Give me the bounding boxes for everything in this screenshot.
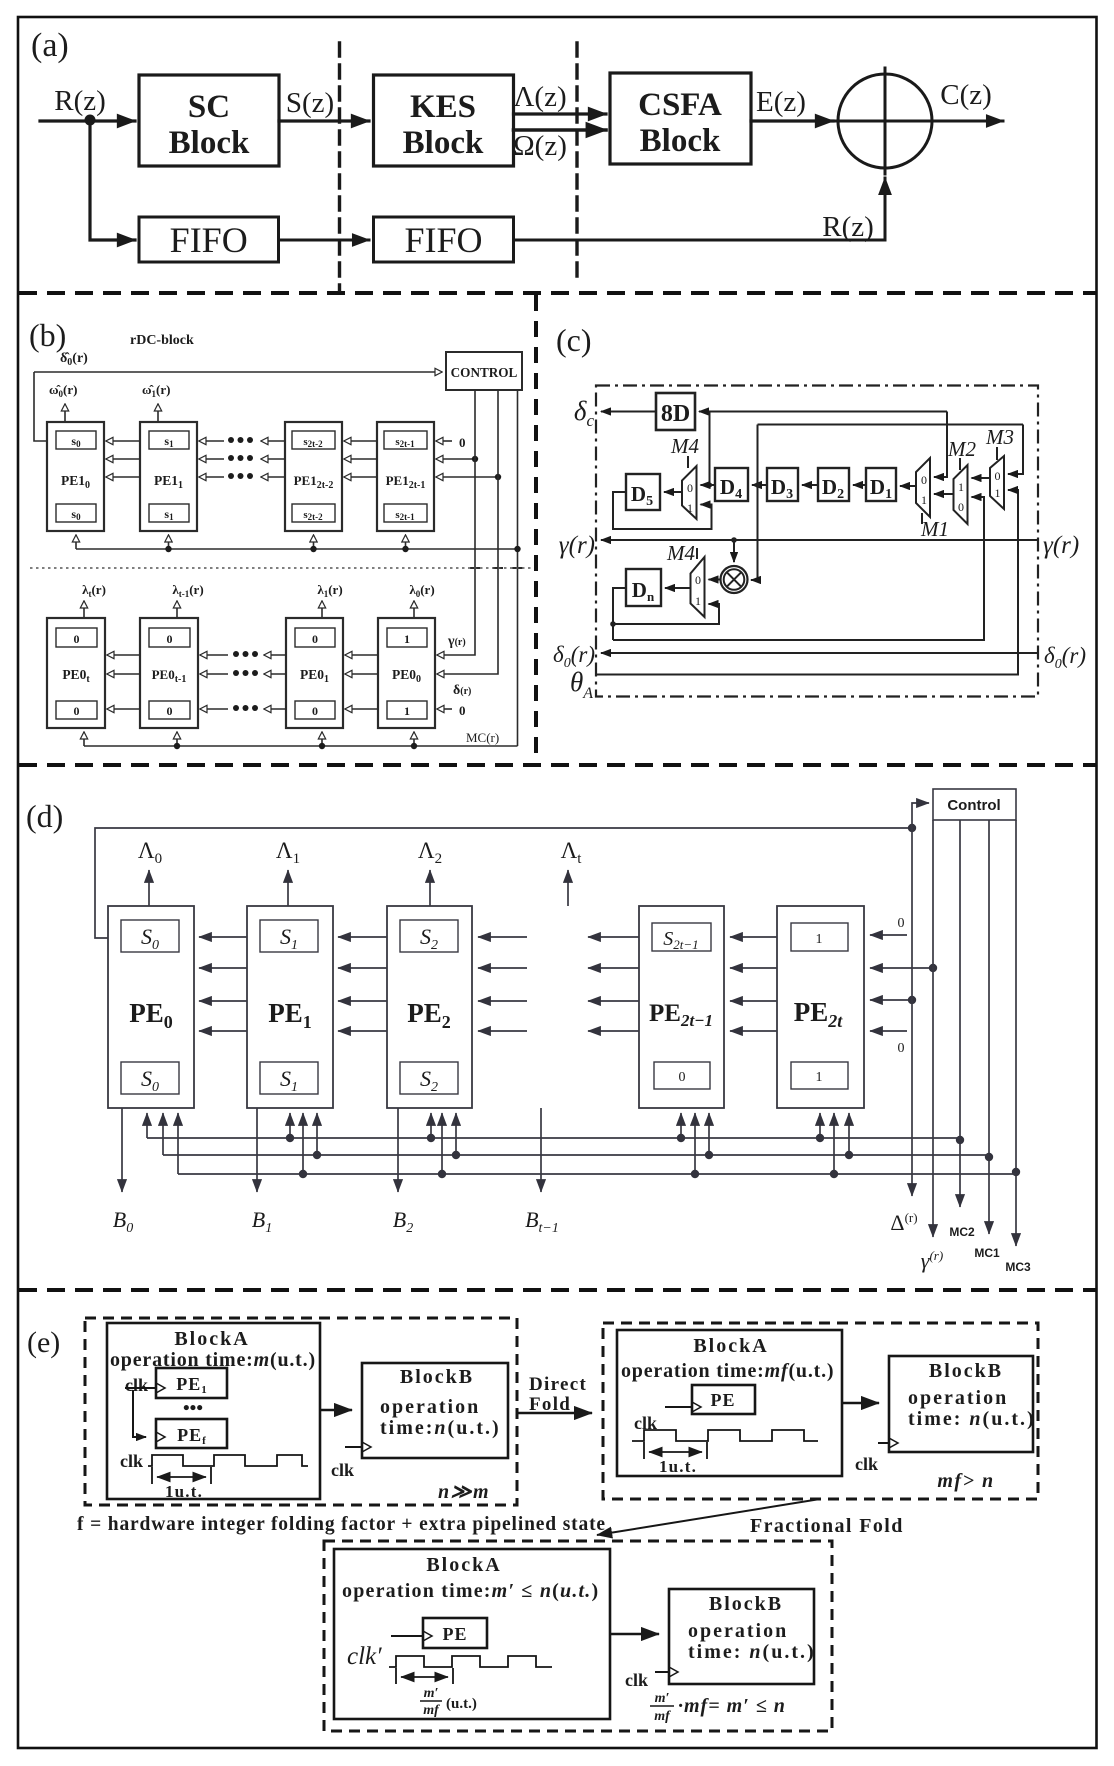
wire KES to CSFA lower: [514, 128, 607, 132]
CONTROL box: [446, 352, 522, 390]
8D box: [656, 393, 695, 430]
wire theta_A to M3 one input: [596, 490, 1018, 675]
svg-text:operation time:m′ ≤ n(u.t.): operation time:m′ ≤ n(u.t.): [342, 1580, 599, 1602]
BlockA2 box: [617, 1330, 842, 1476]
svg-text:time: n(u.t.): time: n(u.t.): [908, 1408, 1036, 1430]
wire D1 to D2: [853, 484, 866, 486]
svg-text:s2t-2: s2t-2: [303, 509, 323, 522]
bus line 2: [163, 1154, 989, 1156]
wire D2 to D3: [802, 484, 818, 486]
control vertical line 1: [437, 390, 475, 655]
svg-text:1u.t.: 1u.t.: [659, 1457, 697, 1476]
svg-text:1: 1: [921, 493, 927, 507]
PE0_1 box: [286, 618, 343, 728]
wire clk' to PE3: [391, 1635, 423, 1637]
dots ellipsis lower: [233, 651, 258, 711]
wire M4 lower output to Dn: [665, 587, 691, 589]
PE0_0 box: [378, 618, 435, 728]
wire BlockA2 to BlockB2: [842, 1402, 879, 1404]
svg-text:B2: B2: [393, 1207, 413, 1236]
svg-text:PE0: PE0: [129, 998, 173, 1032]
svg-text:0: 0: [312, 704, 318, 718]
wires PE2 to PE1 rows: [338, 936, 387, 938]
wire M3 output to M2 one input: [972, 477, 991, 479]
svg-text:clk: clk: [125, 1375, 148, 1395]
svg-text:Ω(z): Ω(z): [513, 130, 567, 162]
svg-text:Block: Block: [640, 123, 721, 159]
svg-text:Control: Control: [947, 797, 1000, 814]
svg-text:1u.t.: 1u.t.: [165, 1482, 203, 1501]
svg-text:0: 0: [687, 481, 693, 495]
PE1_1 box: [140, 422, 197, 531]
wire B0 output: [121, 1108, 123, 1192]
svg-text:MC3: MC3: [1005, 1260, 1031, 1274]
measure ticks 2: [644, 1442, 707, 1459]
svg-text:time: n(u.t.): time: n(u.t.): [688, 1641, 816, 1663]
wire D4 to M4 zero input: [701, 484, 716, 486]
svg-text:γ(r): γ(r): [447, 634, 466, 649]
adder cross horizontal / output wire: [831, 120, 1003, 123]
node junction between D3 and D4: [755, 482, 760, 487]
svg-text:Block: Block: [403, 125, 484, 161]
node junction feedback: [908, 824, 916, 832]
wire FIFO1 to FIFO2: [279, 239, 370, 242]
PE2t-1 bus risers: [680, 1113, 682, 1138]
BlockA1 box: [107, 1323, 320, 1499]
PE1_0 bottom arrow: [75, 535, 77, 549]
svg-text:E(z): E(z): [756, 86, 806, 118]
dashed separator line bc/d: [19, 763, 1096, 767]
upper bus: [76, 548, 518, 550]
svg-text:operation: operation: [688, 1620, 788, 1642]
wire Dn loop down branch: [612, 624, 614, 640]
PE box e3: [423, 1618, 487, 1648]
svg-text:0: 0: [167, 704, 173, 718]
PE_0 box: [108, 906, 194, 1108]
node junction on Dn loop: [610, 621, 616, 627]
svg-text:PE11: PE11: [154, 473, 183, 491]
measure arrow 1u.t. 2: [649, 1451, 702, 1453]
control vertical line 2: [437, 390, 498, 674]
arrow lambda_0 out of PE0_0: [413, 601, 415, 618]
wire B1 output: [256, 1108, 258, 1192]
wires PE2t to PE2t-1 rows: [730, 936, 777, 938]
svg-text:(a): (a): [31, 27, 69, 64]
FIFO 2: [374, 217, 514, 262]
svg-text:R(z): R(z): [822, 211, 874, 243]
wire zero input row4 PE2t: [870, 1030, 907, 1032]
svg-text:S2: S2: [420, 1066, 438, 1095]
svg-text:BlockB: BlockB: [929, 1360, 1003, 1382]
wire feedback row3 PE2t: [870, 999, 912, 1001]
svg-text:clk: clk: [625, 1670, 648, 1690]
clk input BlockB2: [878, 1442, 889, 1444]
svg-text:CSFA: CSFA: [638, 87, 722, 123]
adder cross vertical: [884, 68, 887, 174]
svg-text:0: 0: [898, 1041, 905, 1056]
BlockB2 box: [889, 1356, 1033, 1452]
svg-text:D1: D1: [870, 475, 892, 502]
clock waveform 1: [148, 1455, 308, 1466]
svg-text:0: 0: [679, 1070, 686, 1085]
svg-text:Λ(z): Λ(z): [513, 81, 566, 113]
svg-text:•••: •••: [183, 1398, 203, 1419]
svg-text:time:n(u.t.): time:n(u.t.): [380, 1417, 501, 1439]
arrow Lambda_1 out: [287, 870, 289, 906]
wire feedback top run to PE0: [95, 828, 912, 938]
svg-text:mf> n: mf> n: [937, 1470, 994, 1492]
svg-text:0: 0: [695, 573, 701, 587]
svg-text:(e): (e): [27, 1326, 60, 1359]
PE_1 sub box: [156, 1368, 227, 1398]
svg-text:S2t−1: S2t−1: [663, 928, 698, 952]
svg-text:M4: M4: [670, 434, 699, 458]
svg-text:0: 0: [74, 704, 80, 718]
PE1_1 bottom arrow: [168, 535, 170, 549]
wire B2 output: [397, 1108, 399, 1192]
svg-text:PE12t-2: PE12t-2: [294, 473, 334, 491]
arrow lambda_t out of PE0_t: [83, 601, 85, 618]
dashed vertical separator b/c: [534, 295, 538, 764]
svg-text:PEf: PEf: [177, 1425, 207, 1447]
svg-text:BlockA: BlockA: [693, 1335, 768, 1357]
arrow lambda_1 out of PE0_1: [321, 601, 323, 618]
svg-text:M2: M2: [947, 437, 976, 461]
svg-text:1: 1: [995, 486, 1001, 500]
wires PE1 to PE0 rows: [199, 936, 247, 938]
svg-text:FIFO: FIFO: [404, 220, 482, 260]
wire row 477 to control line: [436, 476, 498, 478]
svg-text:rDC-block: rDC-block: [130, 333, 194, 348]
wire feedback FIFO2 to adder: [514, 178, 886, 240]
measure arrow m'/mf: [401, 1676, 448, 1678]
wire clk to PE2e: [665, 1406, 692, 1408]
svg-text:BlockA: BlockA: [174, 1328, 249, 1350]
wire M2 output to M1 one input: [934, 493, 954, 495]
D4 box: [715, 468, 748, 501]
wires gap into PE2 rows: [478, 936, 527, 938]
svg-text:m′: m′: [424, 1686, 439, 1701]
wire feedback up into Control: [912, 803, 929, 828]
svg-text:PE: PE: [710, 1390, 735, 1410]
mux M4 lower: [691, 557, 705, 617]
svg-text:λ1(r): λ1(r): [317, 582, 342, 599]
svg-text:δc: δc: [574, 396, 595, 430]
svg-text:(d): (d): [26, 798, 63, 834]
svg-text:PE01: PE01: [300, 667, 329, 685]
dashed pipeline divider 2: [575, 43, 578, 285]
mux M1 select stub: [921, 513, 923, 524]
svg-text:D4: D4: [720, 475, 742, 502]
svg-text:0: 0: [459, 435, 466, 450]
svg-text:s1: s1: [164, 507, 174, 522]
svg-text:clk: clk: [855, 1454, 878, 1474]
wire row 459 to control line: [436, 458, 475, 460]
upper bus connector line: [517, 549, 519, 746]
PE0_t-1 bottom arrow: [176, 732, 178, 746]
svg-text:PE0t: PE0t: [62, 667, 90, 685]
svg-text:Dn: Dn: [632, 578, 655, 604]
wire SC to KES: [279, 119, 369, 122]
mux M4 lower select stub: [696, 548, 698, 559]
clock triangle PEf: [156, 1432, 165, 1442]
PE0_t-1 box: [140, 618, 198, 728]
wire R(z) input: [40, 119, 135, 122]
wire M1 output to D1: [900, 485, 916, 487]
svg-text:0: 0: [312, 632, 318, 646]
adder circle: [838, 74, 932, 168]
arrow lambda_t-1 out of PE0_t-1: [176, 601, 178, 618]
wires PE0_t-1/dots rows: [200, 654, 228, 656]
svg-text:s1: s1: [164, 434, 174, 449]
tick marks at dotted separator: [470, 567, 480, 569]
wire delta feedback top run: [758, 424, 1024, 426]
svg-text:(c): (c): [556, 322, 592, 358]
svg-text:s2t-2: s2t-2: [303, 436, 323, 449]
bus line 1: [147, 1137, 960, 1139]
measure arrow 1u.t.: [157, 1476, 206, 1478]
wire gamma(r) across: [601, 539, 1038, 541]
svg-text:λt(r): λt(r): [82, 582, 106, 599]
D3 box: [767, 468, 798, 501]
SC Block: [139, 75, 279, 166]
wire D3 to D4: [752, 484, 767, 486]
svg-text:0: 0: [74, 632, 80, 646]
mux M1: [916, 458, 930, 517]
wires PE1_0/PE1_1 rows: [106, 440, 140, 442]
arrow omega_0 out of PE1_0: [64, 404, 66, 422]
svg-text:BlockB: BlockB: [709, 1593, 783, 1615]
svg-text:1: 1: [404, 704, 410, 718]
svg-text:Λ2: Λ2: [418, 838, 442, 867]
svg-text:C(z): C(z): [940, 79, 992, 111]
svg-text:(u.t.): (u.t.): [446, 1696, 477, 1712]
PE1_2t-1 bottom arrow: [405, 535, 407, 549]
wire zero input row1 PE2t: [870, 934, 907, 936]
svg-text:δ(r): δ(r): [453, 683, 471, 698]
svg-text:Λt: Λt: [561, 838, 583, 867]
wire CSFA to adder: [751, 119, 833, 122]
svg-text:Block: Block: [169, 125, 250, 161]
wire fractional fold arrow: [597, 1499, 820, 1535]
svg-text:γ(r): γ(r): [559, 532, 595, 559]
wire D5 feedback loop to M4 one input: [613, 492, 712, 529]
dotted half separator: [30, 567, 534, 569]
svg-text:clk: clk: [120, 1451, 143, 1471]
wire MC3 vertical: [1015, 820, 1017, 1246]
D2 box: [818, 468, 849, 501]
svg-text:λt-1(r): λt-1(r): [172, 582, 203, 599]
wires PE2t-1 to gap rows: [588, 936, 639, 938]
svg-text:Λ1: Λ1: [276, 838, 300, 867]
svg-text:δ̂0(r): δ̂0(r): [60, 351, 88, 368]
dashed separator line d/e: [19, 1288, 1096, 1292]
svg-text:1: 1: [816, 932, 823, 947]
wire Bt-1 output: [540, 1108, 542, 1192]
bus line 3: [178, 1173, 1016, 1175]
wire delta feedback riser: [757, 425, 759, 486]
wires PE0_t/PE0_t-1 rows: [107, 654, 140, 656]
svg-text:SC: SC: [188, 89, 230, 125]
svg-text:PE: PE: [442, 1624, 467, 1644]
svg-text:MC1: MC1: [974, 1246, 1000, 1260]
arrow Lambda_2 out: [429, 870, 431, 906]
svg-text:ω̂1(r): ω̂1(r): [142, 382, 170, 399]
BlockA3 box: [334, 1549, 610, 1719]
wire top feedback into CONTROL: [34, 371, 442, 373]
svg-text:KES: KES: [410, 89, 476, 125]
svg-text:M4: M4: [666, 541, 695, 565]
mux M2 select stub: [959, 458, 961, 470]
svg-text:PE10: PE10: [61, 473, 90, 491]
arrow omega_1 out of PE1_1: [157, 404, 159, 422]
svg-text:0: 0: [995, 469, 1001, 483]
BlockB3 box: [669, 1589, 814, 1684]
svg-text:PE12t-1: PE12t-1: [386, 473, 426, 491]
PE0_1 bottom arrow: [321, 732, 323, 746]
wires PE1_2t-2/PE1_2t-1 rows: [344, 440, 377, 442]
mux M4 upper select stub: [687, 456, 689, 468]
PE0 bus risers: [146, 1113, 148, 1138]
svg-text:Fractional Fold: Fractional Fold: [750, 1515, 904, 1537]
svg-text:f = hardware integer folding f: f = hardware integer folding factor + ex…: [77, 1514, 606, 1535]
PE2 bus risers: [430, 1113, 432, 1138]
mux M2: [954, 465, 968, 524]
wire feedback down to M1 zero input: [934, 412, 947, 478]
svg-text:D3: D3: [771, 475, 793, 502]
wire BlockA1 to BlockB1: [320, 1409, 352, 1411]
multiplier X: [727, 572, 742, 587]
svg-text:S0: S0: [141, 924, 159, 953]
svg-text:1: 1: [404, 632, 410, 646]
svg-text:D5: D5: [631, 482, 653, 509]
svg-text:BlockA: BlockA: [426, 1554, 501, 1576]
svg-text:CONTROL: CONTROL: [451, 365, 518, 380]
wire junction drop to M4 row: [709, 412, 711, 486]
wire delta feedback down to multiplier: [751, 485, 758, 580]
wire MC2 vertical: [959, 820, 961, 1207]
dashed pipeline divider 1: [338, 43, 341, 290]
PE1 bus risers: [289, 1113, 291, 1138]
svg-text:operation: operation: [380, 1396, 480, 1418]
wire R(z) down to FIFO: [90, 121, 135, 240]
svg-text:0: 0: [958, 500, 964, 514]
PE box e2: [692, 1385, 755, 1414]
svg-text:R(z): R(z): [54, 85, 106, 117]
wire control row2 PE2t: [870, 967, 933, 969]
svg-text:λ0(r): λ0(r): [409, 582, 434, 599]
wire Delta(r) vertical: [911, 828, 913, 1196]
svg-text:ω̂0(r): ω̂0(r): [49, 382, 77, 399]
wire MC1 vertical: [988, 820, 990, 1234]
svg-text:Δ(r): Δ(r): [890, 1210, 917, 1235]
PE_f sub box: [156, 1419, 227, 1448]
svg-text:s2t-1: s2t-1: [395, 509, 415, 522]
svg-text:S0: S0: [141, 1066, 159, 1095]
svg-text:mf: mf: [654, 1709, 671, 1724]
multiplier inner circle: [724, 569, 745, 590]
svg-text:B0: B0: [113, 1207, 133, 1236]
PE0_0 bottom arrow: [413, 732, 415, 746]
svg-text:PE00: PE00: [392, 667, 421, 685]
wire 8D output left: [601, 411, 656, 413]
svg-text:θA: θA: [570, 667, 593, 702]
D1 box: [866, 468, 896, 501]
measure ticks 1: [152, 1467, 211, 1484]
svg-text:1: 1: [958, 480, 964, 494]
dash-dot border box: [596, 386, 1038, 697]
wires dots/PE1_2t-2 rows: [261, 440, 285, 442]
PE1_0 box: [47, 422, 104, 531]
wire KES to CSFA upper: [514, 112, 607, 115]
svg-text:PE0t-1: PE0t-1: [152, 667, 187, 685]
PE_2t box: [777, 906, 864, 1108]
dashed separator line a/bc: [19, 291, 1096, 295]
wire zero input row 441: [436, 440, 452, 442]
svg-text:Λ0: Λ0: [138, 838, 162, 867]
arrow Lambda_0 out: [148, 870, 150, 906]
control vertical line 3: [517, 390, 519, 549]
clock waveform 3: [389, 1656, 552, 1667]
PE1_2t-1 box: [377, 422, 434, 531]
svg-text:clk: clk: [331, 1460, 354, 1480]
wire delta_0(r) across: [601, 652, 1038, 654]
clock waveform 2: [632, 1430, 818, 1441]
svg-text:s2t-1: s2t-1: [395, 436, 415, 449]
PE_2t-1 box: [639, 906, 724, 1108]
svg-text:0: 0: [167, 632, 173, 646]
node junction on R(z): [85, 115, 96, 126]
clock triangle PE1: [156, 1383, 165, 1393]
svg-text:BlockB: BlockB: [400, 1366, 474, 1388]
svg-text:δ0(r): δ0(r): [1044, 643, 1086, 672]
svg-text:(b): (b): [29, 317, 66, 353]
PE0_t box: [47, 618, 105, 728]
svg-text:mf: mf: [423, 1703, 440, 1718]
svg-text:PE1: PE1: [176, 1374, 208, 1396]
wire BlockA3 to BlockB3: [610, 1633, 659, 1635]
svg-text:γ(r): γ(r): [1043, 532, 1079, 559]
wire left loop down to PE1_0: [34, 372, 47, 441]
svg-text:γ(r): γ(r): [921, 1248, 943, 1273]
svg-text:operation time:mf(u.t.): operation time:mf(u.t.): [621, 1360, 834, 1382]
wire zero input row 709: [437, 708, 452, 710]
svg-text:operation: operation: [908, 1387, 1008, 1409]
svg-text:clk′: clk′: [347, 1643, 382, 1670]
PE0_t bottom arrow: [83, 732, 85, 746]
wire delta_c run to M2 zero input: [613, 497, 984, 640]
svg-text:Direct: Direct: [529, 1374, 587, 1395]
svg-text:s0: s0: [71, 434, 81, 449]
wire direct fold arrow: [517, 1412, 592, 1414]
mux M3: [990, 456, 1004, 509]
CSFA Block: [610, 73, 751, 164]
svg-text:·mf= m′ ≤ n: ·mf= m′ ≤ n: [678, 1695, 786, 1717]
dashed box A1: [85, 1318, 517, 1505]
svg-text:S1: S1: [280, 1066, 298, 1095]
wire clk branch to PEf: [133, 1390, 146, 1437]
wires PE0_1/PE0_0 rows: [345, 654, 378, 656]
PE1_2t-2 box: [285, 422, 342, 531]
svg-text:PE2t−1: PE2t−1: [649, 1000, 713, 1030]
svg-text:S2: S2: [420, 924, 438, 953]
dashed box A3: [324, 1541, 832, 1731]
svg-text:1: 1: [816, 1070, 823, 1085]
svg-text:m′: m′: [655, 1691, 670, 1706]
svg-text:FIFO: FIFO: [170, 220, 248, 260]
PE_1 box: [247, 906, 333, 1108]
svg-text:n≫m: n≫m: [438, 1481, 490, 1503]
